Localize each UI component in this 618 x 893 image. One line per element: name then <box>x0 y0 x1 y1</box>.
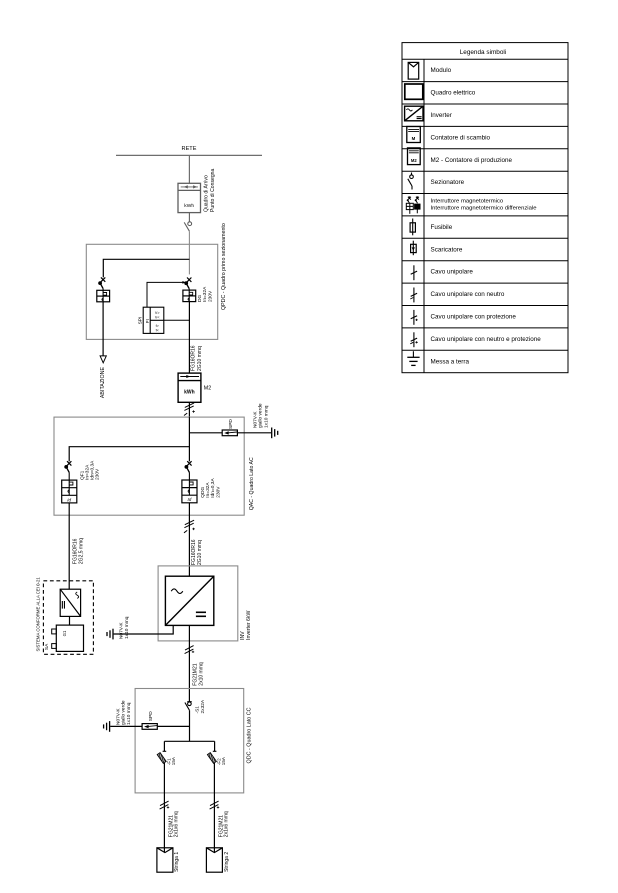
svg-text:Interruttore magnetotermico di: Interruttore magnetotermico differenzial… <box>431 206 538 212</box>
cable mark string 2 <box>210 801 220 809</box>
wire S1 to DC bus <box>189 710 191 741</box>
wire F2 to string 2 <box>213 763 215 853</box>
wire trunk to SPD QDC <box>157 725 189 727</box>
legend symbol contatore M2 <box>408 148 421 165</box>
cable mark (neutro+protezione) below M2 <box>184 403 195 416</box>
svg-text:2x10 mmq: 2x10 mmq <box>199 662 205 686</box>
arrow ABITAZIONE <box>100 356 106 363</box>
svg-text:SPI: SPI <box>138 317 144 325</box>
legend symbol contatore di scambio <box>407 127 421 143</box>
svg-text:QDC - Quadro Lato CC: QDC - Quadro Lato CC <box>247 707 253 763</box>
wire bus to fuse F1 <box>163 741 165 751</box>
svg-text:Inverter: Inverter <box>431 112 452 119</box>
cable mark string 1 <box>160 801 170 809</box>
inverter INV outer box <box>158 566 238 641</box>
svg-text:V<: V< <box>155 315 160 319</box>
svg-text:N07V-K: N07V-K <box>115 708 121 725</box>
wire RETE bus to meter M1 <box>188 155 190 183</box>
svg-text:Stringa 1: Stringa 1 <box>174 852 180 872</box>
legend symbol modulo <box>408 62 419 79</box>
wire sezionatore to DG breaker (gray trunk) <box>188 231 190 274</box>
svg-text:M: M <box>412 136 416 141</box>
svg-text:N07V-K: N07V-K <box>118 622 124 639</box>
svg-text:M2: M2 <box>411 158 417 163</box>
svg-text:SPD: SPD <box>148 711 154 721</box>
svg-text:kWh: kWh <box>184 203 194 209</box>
svg-text:2G2,5 mmq: 2G2,5 mmq <box>79 538 85 564</box>
svg-text:Cavo unipolare: Cavo unipolare <box>431 269 474 276</box>
wire QF1 to storage system SA <box>68 503 70 589</box>
wire SPI to trunk <box>164 319 190 321</box>
svg-text:Messa a terra: Messa a terra <box>431 358 470 365</box>
quadro QPDC box <box>86 244 217 339</box>
svg-text:Legenda simboli: Legenda simboli <box>460 49 507 56</box>
legend symbol fusibile <box>410 219 415 236</box>
fuse F1 <box>157 751 166 763</box>
svg-text:QF1: QF1 <box>79 470 85 480</box>
svg-text:Cavo unipolare con neutro e pr: Cavo unipolare con neutro e protezione <box>431 336 542 343</box>
quadro QAC box <box>54 417 244 515</box>
inverter symbol <box>165 576 213 625</box>
svg-text:15A: 15A <box>171 756 176 765</box>
svg-text:f<: f< <box>156 329 159 333</box>
svg-text:M2 - Contatore di produzione: M2 - Contatore di produzione <box>431 157 513 164</box>
svg-text:QPDC - Quadro primo sezioname: QPDC - Quadro primo sezionamento <box>221 223 227 310</box>
breaker QF1 <box>64 461 71 472</box>
legend symbol scaricatore <box>411 241 417 256</box>
legend symbol quadro elettrico <box>405 84 423 99</box>
fuse F2 <box>207 751 216 763</box>
svg-text:15A: 15A <box>221 756 226 765</box>
svg-text:2x32A: 2x32A <box>200 699 206 713</box>
wire QDG to inverter <box>188 503 190 576</box>
sezionatore (grid side disconnector) <box>184 213 191 232</box>
svg-text:N07V-K: N07V-K <box>252 411 258 428</box>
svg-text:G1: G1 <box>62 630 67 636</box>
svg-text:230V: 230V <box>215 486 221 498</box>
SPD scaricatore QDC <box>142 724 157 730</box>
legend table frame <box>402 43 568 373</box>
svg-text:1x10 mmq: 1x10 mmq <box>126 702 132 725</box>
svg-text:giallo verde: giallo verde <box>258 403 264 428</box>
wire F1 to string 1 <box>163 763 165 853</box>
svg-text:Modulo: Modulo <box>431 67 452 74</box>
ground QDC <box>104 721 110 732</box>
breaker QDG <box>185 461 192 472</box>
legend symbol inverter <box>405 106 423 121</box>
legend symbol sezionatore <box>408 173 414 190</box>
sezionatore S1 <box>185 702 192 711</box>
svg-text:Idn=0,3A: Idn=0,3A <box>210 478 216 498</box>
net RETE bus <box>116 154 262 156</box>
svg-text:2G10 mmq: 2G10 mmq <box>197 346 203 371</box>
svg-text:Cavo unipolare con protezione: Cavo unipolare con protezione <box>431 314 517 321</box>
svg-text:In=32A: In=32A <box>85 464 91 480</box>
svg-text:SPD: SPD <box>228 419 234 429</box>
legend symbol cavo unipolare con neutro <box>410 288 417 303</box>
wire M2 to QAC <box>188 402 190 417</box>
cable mark below QDG <box>184 520 195 533</box>
svg-text:Punto di Consegna: Punto di Consegna <box>210 169 216 212</box>
svg-text:-S1: -S1 <box>195 706 201 714</box>
wire branch to QF1 <box>69 447 189 462</box>
svg-text:2G10 mmq: 2G10 mmq <box>197 540 203 565</box>
legend symbol messa a terra <box>407 351 419 365</box>
wire SPI to DG breaker (with arrow) <box>147 282 183 307</box>
legend symbol interruttore magnetotermico + differenziale <box>406 196 420 214</box>
wire SPD QDC to ground <box>110 725 142 727</box>
svg-text:Interruttore magnetotermico: Interruttore magnetotermico <box>431 199 504 205</box>
svg-text:Quadro elettrico: Quadro elettrico <box>431 90 476 97</box>
module string 1 <box>157 848 173 872</box>
meter M2 contatore di produzione <box>178 373 201 402</box>
converter AC/DC of storage <box>60 589 80 616</box>
wire DG to meter M2 <box>188 302 190 373</box>
svg-text:Contatore di scambio: Contatore di scambio <box>431 134 491 141</box>
svg-text:2x1x6 mmq: 2x1x6 mmq <box>224 811 230 837</box>
svg-text:Scaricatore: Scaricatore <box>431 246 463 253</box>
svg-text:2x1x6 mmq: 2x1x6 mmq <box>174 811 180 837</box>
svg-text:QAC - Quadro Lato AC: QAC - Quadro Lato AC <box>249 457 255 510</box>
cable mark below inverter <box>185 646 195 654</box>
svg-text:kWh: kWh <box>184 389 195 395</box>
svg-text:ABITAZIONE: ABITAZIONE <box>100 367 106 399</box>
svg-text:giallo verde: giallo verde <box>121 700 127 725</box>
legend symbol cavo unipolare con protezione <box>411 310 418 325</box>
storage system dashed box SA <box>43 581 93 655</box>
module string 2 <box>206 848 222 872</box>
svg-text:M2: M2 <box>204 386 211 392</box>
svg-text:FG16OR16: FG16OR16 <box>72 538 78 564</box>
wire branch to abitazione breaker <box>103 259 189 277</box>
wire breaker to ABITAZIONE arrow <box>102 302 104 356</box>
svg-text:1x10 mmq: 1x10 mmq <box>124 616 130 639</box>
relay SPI (interface protection) box <box>143 307 164 333</box>
meter M1 contatore di scambio (kWh) <box>178 183 201 212</box>
svg-text:Cavo unipolare con neutro: Cavo unipolare con neutro <box>431 291 505 298</box>
SPD scaricatore QAC <box>222 430 237 436</box>
wire bus to fuse F2 <box>214 741 216 751</box>
ground inverter <box>107 629 113 640</box>
wire converter to battery <box>69 616 71 625</box>
svg-text:230V: 230V <box>207 290 213 302</box>
breaker abitazione (QPDC left) <box>98 277 105 288</box>
svg-text:RETE: RETE <box>182 146 197 152</box>
svg-text:Quadro di Arrivo: Quadro di Arrivo <box>204 175 210 212</box>
svg-text:Fusibile: Fusibile <box>431 224 453 231</box>
breaker DG <box>184 278 191 289</box>
ground QAC (messa a terra) <box>272 428 278 439</box>
legend symbol cavo unipolare con neutro e protezione <box>410 332 418 347</box>
wire trunk inside QAC <box>188 417 190 461</box>
svg-text:Stringa 2: Stringa 2 <box>224 852 230 872</box>
svg-text:FG16OR16: FG16OR16 <box>190 345 196 371</box>
svg-text:In=32A: In=32A <box>205 482 211 498</box>
battery G1 box <box>52 625 84 651</box>
svg-text:In=32A: In=32A <box>202 286 208 302</box>
legend symbol cavo unipolare <box>411 265 417 280</box>
svg-text:QDG: QDG <box>200 487 206 498</box>
svg-text:SISTEMA CONFORME ALLA CEI 0-21: SISTEMA CONFORME ALLA CEI 0-21 <box>36 577 41 652</box>
svg-text:Idn=0,3A: Idn=0,3A <box>90 460 96 480</box>
svg-text:230V: 230V <box>95 468 101 480</box>
svg-text:1x10 mmq: 1x10 mmq <box>264 405 270 428</box>
quadro QDC box <box>135 689 244 793</box>
svg-text:Inverter 6kW: Inverter 6kW <box>246 610 252 640</box>
DC bus <box>164 740 214 742</box>
wire trunk to SPD <box>189 432 222 434</box>
wire inverter to ground <box>114 625 174 634</box>
wire inverter to QDC <box>188 625 190 701</box>
svg-text:FG21M21: FG21M21 <box>192 663 198 685</box>
svg-text:Sezionatore: Sezionatore <box>431 179 465 186</box>
wire SPD to ground <box>237 432 271 434</box>
svg-text:PI: PI <box>145 319 150 323</box>
svg-text:SA: SA <box>44 643 50 650</box>
